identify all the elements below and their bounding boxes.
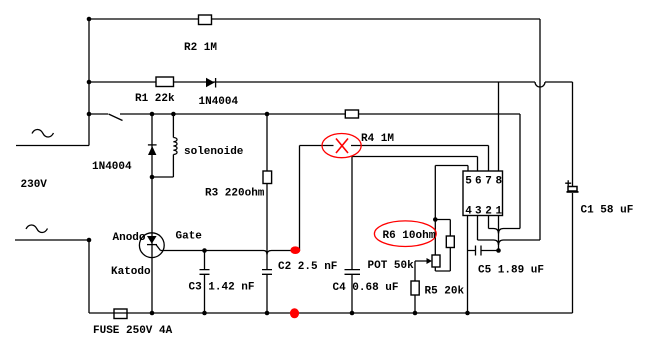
node junction dot C2 bottom: [265, 311, 270, 316]
wire POT wiper to R5: [415, 261, 428, 313]
node junction dot R3 top: [265, 112, 270, 117]
node junction dot SCR bottom: [150, 311, 155, 316]
node junction dot pin4 bottom: [465, 311, 470, 316]
wire C3 branch: [204, 251, 206, 314]
svg-text:1N4004: 1N4004: [92, 161, 132, 173]
annotation red X: [336, 139, 348, 154]
resistor R1: [156, 77, 174, 87]
wire merge join at node C2 top: [264, 251, 272, 255]
svg-text:C5 1.89 uF: C5 1.89 uF: [478, 265, 544, 277]
switch blade: [109, 114, 123, 121]
svg-text:R3 220ohm: R3 220ohm: [205, 188, 265, 200]
resistor R2: [199, 15, 212, 25]
wire merge join lower at pin1: [494, 240, 504, 245]
node junction dot diode-solenoid bottom: [150, 175, 155, 180]
fuse F1: [114, 309, 127, 319]
capacitor C2: [262, 270, 272, 275]
svg-text:6: 6: [475, 176, 482, 188]
wire top net from node A to right vertical: [89, 19, 540, 240]
wire C4 bottom: [351, 274, 353, 313]
svg-text:7: 7: [485, 176, 492, 188]
svg-text:Gate: Gate: [176, 231, 203, 243]
wire SCR gate net y=250.5: [161, 250, 292, 252]
node junction dot solenoid top: [171, 112, 176, 117]
svg-text:R1 22k: R1 22k: [135, 93, 175, 105]
wire R6 branch: [435, 220, 450, 272]
node junction dot C4 bottom: [350, 311, 355, 316]
capacitor C3: [200, 270, 210, 275]
resistor R6: [446, 236, 454, 248]
svg-text:1: 1: [495, 206, 502, 218]
diode D1 1N4004: [206, 78, 216, 88]
wire diode/SCR vertical x=152: [151, 114, 153, 313]
wire pin 3 to merge: [478, 216, 494, 241]
svg-text:Katodo: Katodo: [111, 266, 151, 278]
wire pin 1 vertical: [498, 216, 500, 251]
diode D2 1N4004 vertical: [148, 145, 157, 155]
wire left AC lead 2: [15, 240, 89, 313]
node A junction dot: [87, 17, 92, 22]
node junction dot x89 y82: [87, 80, 92, 85]
capacitor C1 electrolytic: [565, 180, 578, 192]
node junction dot C3 bottom: [202, 311, 207, 316]
svg-text:R4 1M: R4 1M: [361, 133, 394, 145]
resistor R3: [263, 171, 272, 184]
svg-text:4: 4: [465, 206, 472, 218]
wire pin 4 vertical: [467, 216, 469, 314]
node junction dot pot top: [433, 217, 438, 222]
svg-text:C2 2.5 nF: C2 2.5 nF: [278, 261, 337, 273]
svg-text:3: 3: [475, 206, 482, 218]
resistor R4: [345, 110, 358, 118]
resistor R5: [411, 281, 419, 295]
AC source 2: [26, 225, 48, 232]
wire lamp left branch x=299.5: [300, 146, 334, 251]
capacitor C4: [345, 270, 361, 275]
svg-text:C4 0.68 uF: C4 0.68 uF: [333, 282, 399, 294]
op-amp U1 IC box: [463, 171, 503, 216]
svg-text:5: 5: [465, 176, 472, 188]
wire pin 2 to merge: [489, 216, 494, 229]
svg-text:2: 2: [485, 206, 492, 218]
svg-text:R5 20k: R5 20k: [425, 286, 465, 298]
annotation red ellipse lamp: [322, 134, 361, 158]
wire R3 / C2 vertical x=267: [266, 114, 268, 313]
node junction dot x89 y114: [87, 112, 92, 117]
inductor solenoid: [173, 138, 177, 155]
svg-text:C3 1.42 nF: C3 1.42 nF: [189, 282, 255, 294]
wire lamp right to pin 7: [351, 146, 489, 172]
node junction dot x89 y240: [87, 238, 92, 243]
svg-text:8: 8: [495, 176, 502, 188]
node junction dot diode top: [150, 112, 155, 117]
svg-text:R6 10ohm: R6 10ohm: [383, 230, 436, 242]
svg-text:C1 58 uF: C1 58 uF: [581, 205, 634, 217]
svg-text:POT 50k: POT 50k: [368, 260, 415, 272]
annotation red dot gate: [290, 246, 300, 254]
capacitor C5: [476, 246, 482, 256]
svg-text:solenoide: solenoide: [184, 146, 244, 158]
annotation red dot bottom: [290, 308, 299, 318]
svg-text:Anodo: Anodo: [113, 232, 146, 244]
node junction dot C5 right: [496, 248, 501, 253]
wire C4 top to pin 6: [352, 157, 478, 270]
svg-text:1N4004: 1N4004: [199, 96, 239, 108]
node junction dot R5 bottom: [413, 311, 418, 316]
wire pin 5 to POT: [435, 166, 468, 256]
wire merge join upper at pin1: [494, 229, 504, 234]
wire C5 leads: [468, 250, 499, 252]
node junction dot gate C3: [202, 248, 207, 253]
wire R1/diode net y=82 with hop over x=540: [89, 82, 573, 313]
potentiometer POT: [427, 255, 441, 267]
svg-text:230V: 230V: [21, 179, 48, 191]
svg-text:FUSE 250V 4A: FUSE 250V 4A: [93, 325, 173, 337]
wire switch net y=114: [89, 114, 520, 229]
wire solenoid branch: [152, 114, 173, 177]
wire bottom net y=313: [89, 312, 573, 314]
annotation red ellipse R6: [374, 221, 436, 247]
thyristor Q1 SCR: [139, 233, 164, 258]
AC source 1: [32, 130, 54, 137]
wire left AC lead 1: [16, 19, 89, 146]
svg-text:R2 1M: R2 1M: [184, 42, 217, 54]
